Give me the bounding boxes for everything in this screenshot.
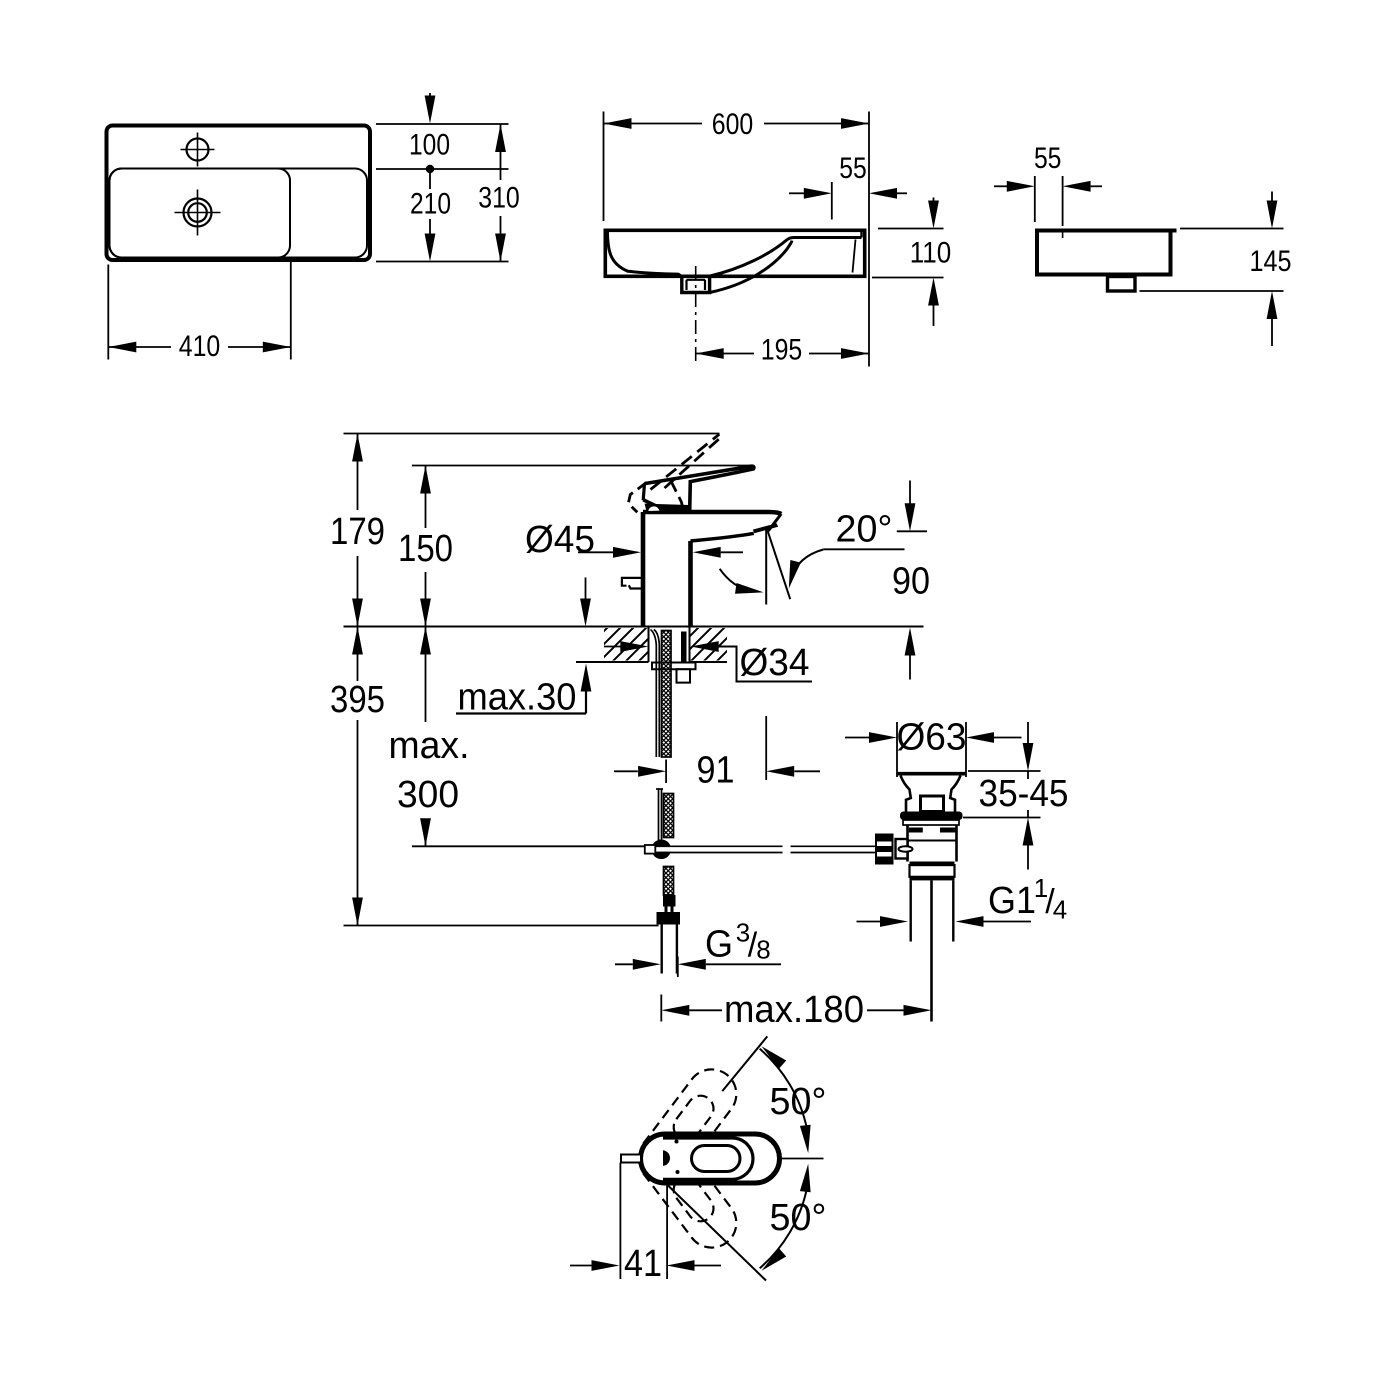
svg-text:100: 100 (409, 129, 450, 162)
svg-text:Ø45: Ø45 (525, 519, 595, 561)
svg-text:395: 395 (330, 679, 385, 721)
svg-text:G1: G1 (988, 880, 1036, 922)
svg-text:Ø34: Ø34 (740, 642, 810, 684)
svg-text:G: G (705, 924, 733, 966)
svg-text:50°: 50° (770, 1081, 827, 1123)
svg-text:310: 310 (478, 182, 520, 215)
svg-text:max.30: max.30 (458, 677, 577, 719)
svg-text:210: 210 (410, 188, 451, 221)
svg-text:91: 91 (697, 750, 735, 792)
svg-text:195: 195 (761, 334, 803, 367)
svg-text:90: 90 (892, 561, 930, 603)
svg-text:55: 55 (839, 152, 867, 185)
svg-text:4: 4 (1053, 895, 1067, 925)
svg-text:8: 8 (756, 935, 770, 965)
svg-text:110: 110 (910, 237, 952, 270)
svg-text:600: 600 (712, 108, 754, 141)
svg-text:50°: 50° (770, 1197, 827, 1239)
svg-text:max.180: max.180 (724, 989, 864, 1031)
svg-text:20°: 20° (836, 509, 893, 551)
svg-text:max.: max. (389, 725, 470, 767)
svg-text:Ø63: Ø63 (897, 717, 967, 759)
svg-text:410: 410 (179, 330, 221, 363)
svg-text:150: 150 (398, 528, 453, 570)
svg-text:145: 145 (1250, 245, 1292, 278)
svg-text:35-45: 35-45 (979, 773, 1069, 815)
svg-text:300: 300 (397, 774, 459, 816)
svg-text:179: 179 (330, 511, 385, 553)
svg-text:55: 55 (1034, 142, 1062, 175)
svg-text:41: 41 (624, 1243, 662, 1285)
